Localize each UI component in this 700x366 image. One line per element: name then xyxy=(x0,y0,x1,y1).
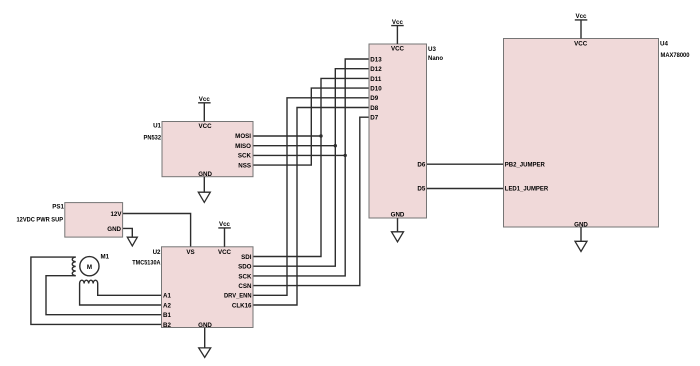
svg-text:D7: D7 xyxy=(370,115,378,122)
svg-text:Vcc: Vcc xyxy=(392,19,404,26)
svg-text:NSS: NSS xyxy=(238,162,251,169)
svg-text:Vcc: Vcc xyxy=(219,221,231,228)
svg-text:VS: VS xyxy=(186,249,194,256)
svg-text:MAX78000: MAX78000 xyxy=(661,52,691,59)
svg-text:D6: D6 xyxy=(417,162,425,169)
svg-text:12VDC PWR SUP: 12VDC PWR SUP xyxy=(17,217,64,224)
svg-text:TMC5130A: TMC5130A xyxy=(132,260,161,267)
svg-text:SDO: SDO xyxy=(238,264,252,271)
svg-text:GND: GND xyxy=(198,322,212,329)
svg-text:VCC: VCC xyxy=(218,249,232,256)
svg-text:D13: D13 xyxy=(370,56,382,63)
svg-text:DRV_ENN: DRV_ENN xyxy=(224,293,252,300)
svg-text:U4: U4 xyxy=(660,41,668,48)
svg-text:A2: A2 xyxy=(163,302,171,309)
svg-text:GND: GND xyxy=(107,226,121,233)
svg-text:GND: GND xyxy=(574,221,588,228)
svg-text:D12: D12 xyxy=(370,66,382,73)
svg-text:PN532: PN532 xyxy=(144,134,162,141)
svg-text:VCC: VCC xyxy=(574,40,588,47)
svg-text:CLK16: CLK16 xyxy=(232,302,252,309)
svg-text:D8: D8 xyxy=(370,105,378,112)
svg-text:SDI: SDI xyxy=(241,254,252,261)
svg-text:M: M xyxy=(87,264,92,271)
svg-text:LED1_JUMPER: LED1_JUMPER xyxy=(505,186,549,193)
svg-text:D9: D9 xyxy=(370,95,378,102)
svg-text:B2: B2 xyxy=(163,322,171,329)
svg-text:U2: U2 xyxy=(153,249,161,256)
svg-text:U3: U3 xyxy=(428,46,436,53)
svg-text:SCK: SCK xyxy=(238,153,252,160)
svg-text:Vcc: Vcc xyxy=(575,13,587,20)
svg-text:Nano: Nano xyxy=(428,55,443,62)
svg-text:VCC: VCC xyxy=(199,123,213,130)
svg-text:D11: D11 xyxy=(370,76,382,83)
svg-text:12V: 12V xyxy=(110,211,122,218)
svg-text:MISO: MISO xyxy=(235,143,251,150)
svg-text:M1: M1 xyxy=(101,254,110,261)
svg-text:A1: A1 xyxy=(163,293,171,300)
svg-text:GND: GND xyxy=(198,171,212,178)
svg-text:VCC: VCC xyxy=(391,46,405,53)
svg-text:U1: U1 xyxy=(153,122,161,129)
svg-text:SCK: SCK xyxy=(238,273,252,280)
svg-text:GND: GND xyxy=(391,212,405,219)
svg-text:Vcc: Vcc xyxy=(199,96,211,103)
svg-text:PB2_JUMPER: PB2_JUMPER xyxy=(505,162,546,169)
svg-text:D5: D5 xyxy=(417,186,425,193)
svg-text:D10: D10 xyxy=(370,86,382,93)
svg-text:CSN: CSN xyxy=(238,283,252,290)
svg-text:MOSI: MOSI xyxy=(235,133,251,140)
svg-text:B1: B1 xyxy=(163,312,171,319)
svg-text:PS1: PS1 xyxy=(52,204,64,211)
